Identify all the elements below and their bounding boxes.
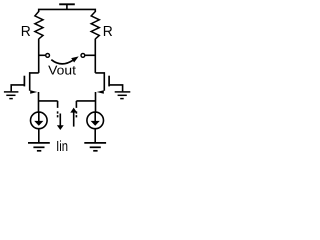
wire: Vout left stub <box>39 54 46 56</box>
wire: Vout right stub <box>85 54 95 56</box>
wire: left source to Iin branch <box>39 100 58 102</box>
node Vout left terminal <box>46 54 50 58</box>
wire: right source to Iin branch <box>76 100 95 102</box>
arrow Vout curved <box>51 56 78 64</box>
transistor M1 source arrow <box>30 90 37 94</box>
wire: left current source to ground <box>38 129 40 143</box>
wire: left resistor bottom to drain jog <box>38 39 40 73</box>
VDD supply symbol <box>59 4 75 9</box>
resistor R1 (left) <box>35 12 43 39</box>
current source I1 (left) <box>31 112 48 129</box>
wire: right drain jog <box>95 73 104 91</box>
ground (right current source) <box>84 143 106 151</box>
wire: right source lead <box>95 92 97 112</box>
wire: right current source to ground <box>94 129 96 143</box>
node Vout right terminal <box>81 54 85 58</box>
ground (right gate) <box>115 92 131 99</box>
transistor M2 source arrow <box>97 90 104 94</box>
wire: right resistor bottom to drain jog <box>94 39 96 73</box>
current source I2 (right) <box>87 112 104 129</box>
VDD rail <box>39 9 96 12</box>
ground (left gate) <box>4 92 19 99</box>
wire: right gate to ground <box>109 85 123 92</box>
svg-text:Vout: Vout <box>48 63 76 78</box>
svg-text:Iin: Iin <box>56 139 68 155</box>
resistor R2 (right) <box>91 12 99 39</box>
wire: left gate to ground <box>11 85 24 92</box>
svg-text:R: R <box>21 24 31 40</box>
svg-text:R: R <box>103 24 113 40</box>
ground (left current source) <box>28 143 50 151</box>
wire: left drain jog <box>30 73 39 91</box>
arrow Iin right (up) <box>70 108 77 127</box>
transistor M2 gate bar <box>108 76 110 87</box>
wire: left dashed Iin path <box>57 101 59 119</box>
transistor M1 gate bar <box>23 76 25 87</box>
wire: right dashed Iin path <box>75 101 77 119</box>
wire: left source lead <box>38 92 40 112</box>
arrow Iin left (down) <box>57 114 64 131</box>
